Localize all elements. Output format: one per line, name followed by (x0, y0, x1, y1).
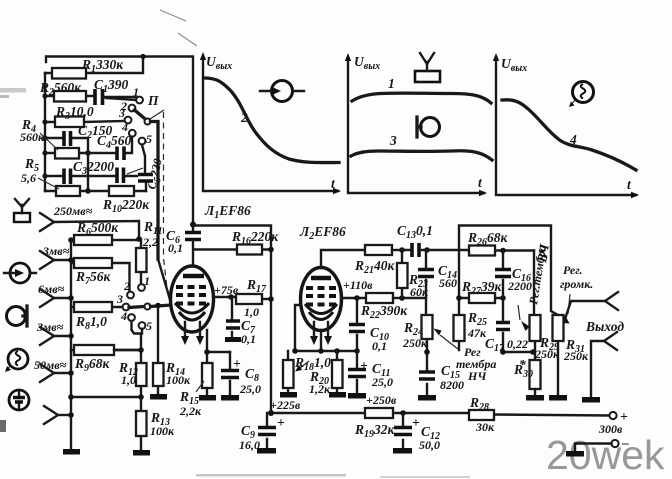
resistor R9 (71, 345, 142, 355)
svg-text:0,22: 0,22 (507, 337, 528, 351)
label R27 39к (461, 279, 503, 297)
input mixing bus (68, 237, 74, 449)
svg-text:16,0: 16,0 (239, 438, 260, 452)
label 6мв (38, 282, 65, 296)
graph 3 mic icon (569, 82, 594, 108)
ground R18 (280, 392, 297, 398)
svg-text:+: + (233, 356, 241, 371)
label R18 1,0 (294, 355, 331, 373)
svg-text:20wek: 20wek (546, 432, 665, 478)
resistor R27 (456, 293, 506, 303)
switch П label 1 (133, 85, 139, 99)
svg-text:560к: 560к (20, 130, 45, 144)
graph 2 label t (478, 175, 483, 190)
graph 2 curve 1 (352, 93, 491, 103)
resistor R5 (45, 186, 91, 196)
svg-text:1: 1 (144, 274, 150, 288)
resistor R26 (427, 246, 534, 256)
svg-text:П: П (147, 93, 159, 108)
svg-text:0,1: 0,1 (241, 332, 256, 346)
svg-text:2: 2 (240, 110, 248, 125)
switch П2 links (132, 321, 143, 350)
grid wire Л2 (295, 305, 301, 351)
svg-text:Выход: Выход (585, 319, 624, 334)
wire R9 to R12 top (114, 349, 141, 351)
antenna input wire (54, 221, 139, 239)
input chevron 6 (44, 406, 71, 424)
label Рег. громк. (560, 263, 593, 291)
label 3мв row2 (42, 244, 70, 258)
svg-text:4: 4 (121, 120, 128, 134)
resistor R2 (45, 91, 93, 102)
label Выход (585, 319, 624, 334)
label C6 0,1 (166, 228, 183, 255)
svg-text:3: 3 (118, 106, 125, 120)
switch arm wire to grid (158, 259, 171, 303)
graph 3 axes (493, 53, 639, 198)
resistor R8 (71, 302, 123, 312)
resistor R23 (397, 250, 408, 298)
switch П label (147, 93, 159, 108)
graph 1 axes (200, 52, 341, 194)
tube Л2 grids (306, 288, 337, 305)
svg-text:5,6: 5,6 (21, 171, 36, 185)
svg-text:25,0: 25,0 (371, 375, 393, 389)
svg-text:2: 2 (123, 279, 130, 293)
piezo input icon (9, 390, 29, 410)
feedback frame (459, 226, 558, 316)
label +75в (214, 283, 239, 297)
resistor R3 (45, 117, 125, 128)
svg-text:Рег.: Рег. (563, 263, 583, 277)
capacitor C4 (88, 137, 132, 160)
svg-text:47к: 47к (467, 326, 487, 340)
svg-text:100к: 100к (150, 424, 175, 438)
label C1 390 (94, 77, 129, 95)
ground C8 (221, 395, 239, 401)
label R15 2,2к with pointer (179, 381, 204, 418)
svg-text:1,0: 1,0 (121, 373, 136, 387)
graph 1 label Uвых (206, 54, 232, 72)
label C3 2200 (73, 159, 114, 177)
svg-text:C32200: C32200 (73, 159, 114, 177)
label C4 560 (97, 133, 132, 151)
svg-text:НЧ: НЧ (467, 369, 487, 383)
resistor R11 (136, 239, 147, 284)
capacitor C15 (419, 349, 435, 395)
svg-text:560: 560 (439, 276, 457, 290)
resistor R6 (71, 235, 142, 245)
svg-text:C1390: C1390 (94, 77, 129, 95)
svg-text:0,1: 0,1 (372, 339, 387, 353)
scan artifacts top (0, 10, 470, 478)
tube Л1 grids (176, 287, 208, 304)
label R30 * (513, 357, 533, 380)
head input icon (7, 306, 28, 326)
svg-text:Uвых: Uвых (501, 56, 527, 74)
resistor R30 (530, 360, 541, 395)
screen wire Л2 (341, 295, 366, 301)
capacitor C2 (45, 131, 88, 153)
resistor R4 (45, 148, 91, 159)
potentiometer R29 (518, 251, 541, 361)
capacitor C12 (394, 413, 412, 448)
label R19 32к (354, 422, 396, 440)
node dots on ladder bus (42, 93, 47, 178)
resistor R16 (194, 245, 274, 255)
label Рег тембра НЧ (456, 345, 496, 383)
switch П linkage line (150, 110, 167, 288)
top feedback rail (46, 57, 193, 225)
label C8 25,0 (233, 356, 261, 396)
ground C11 (348, 393, 366, 399)
ground C7 (225, 337, 241, 342)
node +225в (268, 398, 301, 416)
graph 1 curve label 2 (240, 110, 248, 125)
capacitor C10 (349, 298, 365, 351)
ground minus terminal (566, 451, 584, 457)
label R1 330к (81, 57, 124, 75)
label R10 220к (102, 197, 150, 215)
label R17 1,0 (244, 277, 267, 319)
input chevron 3 (40, 289, 71, 307)
svg-text:300в: 300в (598, 422, 623, 436)
input chevron 4 (40, 327, 71, 345)
label C2 150 (78, 123, 113, 141)
ground C9 (257, 448, 276, 454)
label R6 500к (76, 220, 119, 238)
svg-text:R1932к: R1932к (354, 422, 396, 440)
svg-text:Л2EF86: Л2EF86 (299, 224, 346, 242)
label C9 16,0 (239, 415, 285, 452)
graph 3 curve label 4 (569, 132, 577, 147)
svg-text:t: t (627, 177, 632, 192)
switch П contact 4 (121, 120, 136, 137)
svg-text:t: t (478, 175, 483, 190)
svg-text:5: 5 (146, 132, 152, 146)
switch П contact 1 (106, 97, 143, 104)
resistor R7 (71, 258, 130, 291)
resistor R20 (332, 351, 343, 392)
node plate Л1 (190, 222, 196, 228)
svg-text:*: * (519, 357, 526, 372)
label R24 250к (402, 320, 428, 350)
output jack top (605, 292, 618, 310)
label R3 10,0 (55, 104, 94, 122)
capacitor C1 (95, 89, 136, 105)
ground bus (63, 449, 80, 455)
ladder left bus (44, 73, 46, 191)
label C7 0,1 (241, 318, 256, 346)
svg-text:1,2к: 1,2к (309, 382, 331, 396)
svg-text:0,1: 0,1 (168, 241, 183, 255)
resistor R13 (136, 397, 147, 450)
label C17 0,22 (485, 336, 528, 354)
svg-text:250мв≈: 250мв≈ (53, 204, 93, 218)
svg-text:R968к: R968к (74, 356, 111, 374)
label C10 0,1 (370, 325, 389, 353)
input chevron 2 (40, 251, 71, 269)
svg-text:громк.: громк. (560, 277, 593, 291)
wire bus to R12-R13 node (71, 396, 141, 398)
label R22 390к (360, 303, 408, 321)
ground C15 (418, 395, 436, 401)
input chevron 1 (40, 213, 54, 231)
tube Л2 anode (311, 276, 331, 281)
switch П2 arm (129, 304, 171, 310)
label R4 560к with pointer (20, 117, 58, 150)
ground R13 (133, 450, 150, 456)
resistor R10 (88, 186, 146, 196)
graph 3 label t (627, 177, 632, 192)
graph 2 axes (345, 53, 487, 196)
label Л1 EF86 (204, 203, 251, 221)
label C13 0,1 (397, 223, 433, 241)
svg-text:R81,0: R81,0 (75, 314, 107, 332)
svg-text:Uвых: Uвых (206, 54, 232, 72)
watermark 20wek (546, 432, 665, 478)
svg-text:30к: 30к (475, 420, 495, 434)
svg-text:+: + (277, 415, 285, 430)
graph 1 curve 2 (204, 78, 339, 163)
capacitor C3 left (45, 153, 88, 191)
label Л2 EF86 (299, 224, 346, 242)
label 3мв row4 (36, 320, 64, 334)
antenna input icon (14, 199, 30, 222)
resistor R1 (45, 54, 146, 79)
label 50мв (34, 358, 67, 372)
label R8 1,0 (75, 314, 107, 332)
label C16 2200 (507, 266, 532, 293)
svg-text:250к: 250к (402, 336, 428, 350)
screen wire Л1 (213, 294, 236, 300)
capacitor C8 (221, 352, 239, 395)
svg-text:4: 4 (569, 132, 577, 147)
graph 1 pickup icon (260, 81, 304, 102)
capacitor C7 (226, 297, 240, 337)
switch П contact 2 (120, 99, 135, 113)
svg-text:C130,1: C130,1 (397, 223, 433, 241)
ground R30 (526, 395, 544, 401)
svg-text:1: 1 (388, 76, 395, 91)
switch П2 contact 5 (139, 319, 152, 333)
svg-text:25,0: 25,0 (239, 382, 261, 396)
resistor R28 (469, 410, 494, 420)
tube Л1 anode (183, 274, 204, 279)
svg-text:R22390к: R22390к (360, 303, 408, 321)
capacitor C5 (138, 145, 153, 191)
label R13 100к (150, 410, 175, 438)
label R21 40к (354, 258, 396, 276)
label +110в (343, 278, 373, 292)
supply rail bottom (271, 410, 609, 416)
tube Л1 envelope (171, 266, 214, 332)
graph 2 head icon (417, 117, 440, 137)
svg-text:8200: 8200 (440, 378, 464, 392)
label +250в (366, 393, 397, 407)
label R26 68к (467, 230, 509, 248)
switch П2 contact 3 (116, 292, 129, 310)
svg-text:+: + (412, 415, 420, 430)
resistor R17 (236, 294, 274, 304)
graph 2 curve label 1 (388, 76, 395, 91)
label R31 250к (563, 337, 589, 363)
svg-text:R17: R17 (246, 277, 267, 295)
capacitor C14 (402, 250, 434, 298)
label R25 47к (467, 310, 487, 340)
graph 2 curve 3 (351, 151, 492, 160)
svg-text:R10220к: R10220к (102, 197, 150, 215)
volume wiper wire to output (564, 301, 606, 322)
switch П2 contact 2 (123, 279, 134, 298)
svg-text:Uвых: Uвых (354, 54, 380, 72)
svg-text:+: + (360, 358, 368, 373)
label R28 30к (469, 395, 495, 434)
supply rail to +225 column (193, 226, 271, 414)
svg-text:250к: 250к (563, 349, 589, 363)
label C5 220 rotated (144, 157, 168, 191)
svg-text:+225в: +225в (270, 398, 301, 412)
label 250мв (53, 204, 93, 218)
switch П contact 3 (118, 106, 131, 123)
label C12 50,0 (412, 415, 440, 452)
capacitor C16 (495, 251, 511, 299)
ground R15 (199, 395, 216, 401)
svg-text:5: 5 (146, 319, 152, 333)
label R7 56к (75, 269, 112, 287)
label Рег.тембра ВЧ rotated (526, 242, 552, 305)
potentiometer R25 (454, 298, 465, 350)
label R2 560к (39, 80, 82, 98)
resistor R19 (365, 408, 393, 418)
resistor R22 (366, 293, 405, 303)
label R9 68к (74, 356, 111, 374)
label R16 220к (231, 229, 279, 247)
switch П2 contact 1 (138, 274, 150, 291)
svg-text:C4560: C4560 (97, 133, 132, 151)
graph 2 antenna icon (415, 53, 440, 82)
switch П arm (135, 110, 159, 259)
ground R14 (150, 394, 167, 400)
resistor R12 (136, 347, 147, 400)
potentiometer R31 (553, 294, 571, 395)
cathode row Л2 (292, 330, 360, 354)
svg-text:2,2к: 2,2к (179, 404, 202, 418)
graph 3 label Uвых (501, 56, 527, 74)
graph 1 label t (331, 176, 336, 191)
ground R20 (329, 392, 346, 398)
tube Л2 cathode (305, 304, 337, 320)
resistor R14 (153, 303, 164, 394)
input chevron 5 (40, 364, 71, 382)
terminal +300в (609, 409, 628, 424)
capacitor C9 (258, 413, 276, 448)
ground R31 (549, 395, 567, 401)
graph 3 curve 4 (502, 100, 636, 170)
svg-text:R756к: R756к (75, 269, 112, 287)
label R14 100к (165, 360, 191, 387)
pickup input icon (4, 263, 36, 283)
svg-text:C5220: C5220 (144, 157, 168, 191)
resistor R15 (202, 363, 213, 395)
svg-text:4: 4 (120, 309, 127, 323)
svg-text:3: 3 (116, 292, 123, 306)
tube Л2 envelope (301, 268, 342, 331)
svg-text:Л1EF86: Л1EF86 (204, 203, 251, 221)
capacitor C17 (496, 298, 533, 355)
tube Л2 heater arrows (310, 322, 332, 345)
label R12 1,0 (118, 360, 138, 387)
ground C12 (393, 448, 412, 454)
potentiometer R24 (422, 298, 459, 371)
tube Л1 cathode (175, 303, 209, 320)
capacitor C11 (348, 351, 366, 393)
svg-text:R2140к: R2140к (354, 258, 396, 276)
capacitor C3 right (88, 168, 143, 184)
terminal minus (575, 435, 629, 451)
svg-text:ВЧ: ВЧ (534, 242, 552, 264)
svg-text:2,2: 2,2 (142, 235, 158, 249)
svg-text:50,0: 50,0 (419, 438, 440, 452)
switch П contact 5 (139, 132, 152, 146)
svg-text:+250в: +250в (366, 393, 397, 407)
svg-text:–: – (621, 435, 629, 450)
label C15 8200 (440, 363, 464, 392)
label R23 60к (408, 272, 429, 299)
tube Л1 heater arrows (181, 322, 204, 345)
capacitor C6 (185, 225, 201, 269)
svg-text:1: 1 (133, 85, 139, 99)
label R29 250к (534, 335, 560, 361)
anode wire Л2 to R21 (321, 250, 365, 268)
output jack bottom (591, 332, 617, 397)
resistor R18 trimmer (283, 351, 309, 392)
mic coil input icon (5, 349, 28, 372)
label 300в (598, 422, 623, 436)
label C11 25,0 (360, 358, 393, 389)
label C14 560 (438, 263, 457, 290)
label R5 5,6 with pointer (21, 156, 59, 189)
cathode wire Л1 (204, 330, 230, 363)
label R20 1,2к (309, 369, 331, 396)
svg-text:1,0: 1,0 (244, 305, 259, 319)
graph 2 label Uвых (354, 54, 380, 72)
graph 2 curve label 3 (389, 133, 397, 148)
switch П2 contact 4 (120, 309, 135, 323)
svg-text:+110в: +110в (343, 278, 373, 292)
resistor R21 (365, 245, 405, 255)
capacitor C13 (402, 243, 430, 257)
svg-text:100к: 100к (166, 373, 191, 387)
label R11 2,2 (142, 219, 162, 249)
ground output (582, 397, 600, 403)
svg-text:3: 3 (389, 133, 397, 148)
